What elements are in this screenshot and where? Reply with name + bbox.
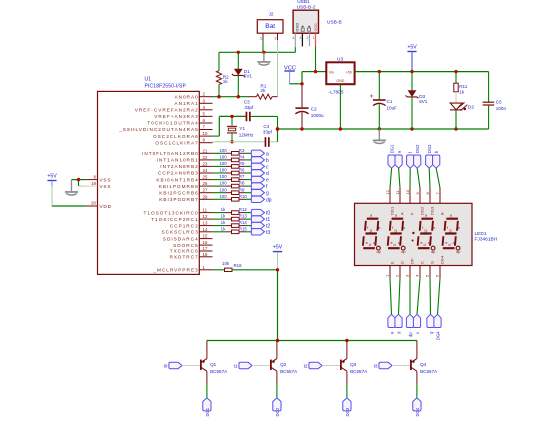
svg-text:+5V: +5V <box>407 45 417 51</box>
svg-text:33pf: 33pf <box>244 105 254 110</box>
svg-text:GND: GND <box>336 79 344 83</box>
node VCC junctions <box>314 70 317 73</box>
svg-text:1k: 1k <box>221 220 226 225</box>
svg-text:13: 13 <box>203 221 208 226</box>
svg-text:5V1: 5V1 <box>419 99 428 104</box>
svg-text:19: 19 <box>91 181 96 186</box>
wire OSC2 pin10 up and over <box>213 116 246 136</box>
wire display pin 1 to e <box>390 278 392 314</box>
node t3 net flag at Q4 base <box>374 362 392 368</box>
node top rail junctions <box>378 70 381 73</box>
U1 left-side pins VSS VSS VDD <box>86 174 112 209</box>
ground below VSS <box>71 180 73 192</box>
wire +5V to VDD pin 20 <box>52 187 86 206</box>
svg-text:R10: R10 <box>239 194 248 199</box>
svg-text:BC557A: BC557A <box>420 369 438 374</box>
svg-text:d: d <box>266 171 269 177</box>
resistor R15 1k on RC3 net t3 <box>213 226 252 233</box>
svg-text:DG2: DG2 <box>419 206 424 215</box>
svg-text:a: a <box>266 151 269 157</box>
svg-text:2k: 2k <box>260 88 266 93</box>
svg-text:2: 2 <box>275 36 277 40</box>
svg-text:Bat: Bat <box>265 23 275 30</box>
wire Q3 collector down <box>346 384 348 398</box>
svg-text:KBI1PGMRB5: KBI1PGMRB5 <box>159 184 199 189</box>
ground below C1 <box>378 129 380 140</box>
connector USB1 USB-B-2 <box>293 0 342 33</box>
svg-text:28: 28 <box>203 194 208 199</box>
node bottom rail junctions <box>300 127 303 130</box>
wire USB GND to battery rail <box>294 47 296 52</box>
svg-text:3: 3 <box>299 36 301 40</box>
svg-text:DP: DP <box>409 258 414 264</box>
svg-text:DG1: DG1 <box>389 206 394 215</box>
wire t2 flag to Q3 base <box>322 365 340 367</box>
node t1 digit-drive net flag <box>251 216 270 223</box>
svg-text:2: 2 <box>306 36 308 40</box>
svg-text:C1: C1 <box>387 99 393 104</box>
svg-text:Q3: Q3 <box>350 362 357 367</box>
svg-text:BC557A: BC557A <box>350 369 368 374</box>
power +5V left supply symbol <box>47 174 57 187</box>
svg-text:LED1: LED1 <box>475 231 487 237</box>
svg-text:R15: R15 <box>239 226 248 231</box>
svg-text:100: 100 <box>219 155 227 160</box>
wire f to display pin 10 <box>409 168 411 188</box>
svg-text:11: 11 <box>203 208 208 213</box>
svg-text:12MHz: 12MHz <box>239 133 254 138</box>
svg-text:1k: 1k <box>221 226 226 231</box>
wire U3 output +5V rail <box>355 71 489 73</box>
svg-text:27: 27 <box>203 188 208 193</box>
svg-text:GND: GND <box>294 23 299 32</box>
capacitor C4 33pf <box>263 124 278 147</box>
svg-text:KBI3PGDRB7: KBI3PGDRB7 <box>159 197 198 202</box>
wire DG2 to display pin 9 <box>417 168 420 188</box>
node DG2 net flag above display <box>414 144 421 168</box>
svg-text:TXCKRC6: TXCKRC6 <box>170 249 199 254</box>
power +5V top rail symbol <box>407 45 417 72</box>
svg-text:18: 18 <box>203 252 208 257</box>
svg-text:OSC1CLKIRA7: OSC1CLKIRA7 <box>155 140 198 145</box>
svg-text:t3: t3 <box>374 363 378 368</box>
node DG3 net flag above display <box>426 144 433 168</box>
svg-text:5V1: 5V1 <box>244 74 253 79</box>
svg-text:D: D <box>399 261 404 264</box>
wire display pin 3 to dp <box>409 278 411 314</box>
svg-text:DG3: DG3 <box>429 206 434 215</box>
svg-text:t1: t1 <box>234 363 238 368</box>
svg-text:Q2: Q2 <box>280 362 287 367</box>
svg-text:25: 25 <box>203 175 208 180</box>
svg-text:1k: 1k <box>221 214 226 219</box>
wire Q2 collector down <box>276 384 278 398</box>
wire display pin 2 to d <box>399 278 401 314</box>
USB pin 3 D+ <box>299 33 302 46</box>
svg-text:15: 15 <box>203 234 208 239</box>
wire crystal caps to ground rail <box>277 116 279 141</box>
svg-text:+5V: +5V <box>47 174 57 180</box>
resistor R13 1k on RC1 net t1 <box>213 214 252 221</box>
svg-text:Vin: Vin <box>329 70 334 74</box>
wire battery plus to R1 <box>277 40 279 96</box>
svg-text:C5: C5 <box>496 99 502 104</box>
node t1 net flag at Q2 base <box>234 362 252 368</box>
resistor R10 100 ohm on RB7 net dp <box>213 194 252 201</box>
svg-text:14: 14 <box>203 227 208 232</box>
svg-text:Y1: Y1 <box>239 126 245 131</box>
svg-text:g: g <box>266 191 269 197</box>
svg-text:INT0FLT0AN12RB0: INT0FLT0AN12RB0 <box>142 151 199 156</box>
node b net flag above display <box>433 150 440 168</box>
svg-text:AN0RA0: AN0RA0 <box>174 94 198 99</box>
svg-text:22: 22 <box>203 155 208 160</box>
resistor R14 1k on RC2 net t2 <box>213 220 252 227</box>
svg-text:B: B <box>439 212 444 215</box>
svg-text:R5: R5 <box>239 161 245 166</box>
svg-text:DG2: DG2 <box>415 144 420 153</box>
svg-text:1k: 1k <box>221 207 226 212</box>
capacitor C2 1000u <box>295 84 324 129</box>
svg-text:12: 12 <box>203 214 208 219</box>
svg-text:t2: t2 <box>266 224 270 230</box>
svg-text:U1: U1 <box>145 77 152 83</box>
wire VCC net <box>290 72 327 84</box>
wire Q1 collector down <box>206 384 208 398</box>
node DG2 net flag at Q2 collector <box>273 398 281 417</box>
svg-text:c: c <box>415 332 420 334</box>
svg-text:10k: 10k <box>222 261 230 266</box>
node DG1 net flag at Q1 collector <box>203 398 211 417</box>
svg-text:23: 23 <box>203 161 208 166</box>
node d net flag below display <box>395 314 402 334</box>
wire display pin 5 to g <box>429 278 432 314</box>
wire display pin 4 to c <box>417 278 420 314</box>
transistor Q3 BC557A <box>340 341 368 385</box>
resistor R9 100 ohm on RB6 net g <box>213 187 252 194</box>
node g net flag below display <box>427 314 434 334</box>
svg-text:VREF-CVREFAN2RA2: VREF-CVREFAN2RA2 <box>135 108 199 113</box>
svg-text:+5V: +5V <box>273 245 283 251</box>
diode D2 LED <box>450 103 474 130</box>
battery connector J2 Bat <box>257 12 283 41</box>
power +5V above R16 <box>273 245 283 253</box>
wire Q4 collector down <box>416 384 418 398</box>
svg-text:100: 100 <box>219 187 227 192</box>
svg-text:SCKSCLRC3: SCKSCLRC3 <box>162 230 199 235</box>
svg-text:USB1: USB1 <box>297 0 310 5</box>
node a net flag above display <box>395 150 402 168</box>
node e net flag below display <box>388 314 395 334</box>
wire a to display pin 11 <box>399 168 400 188</box>
svg-text:BC557A: BC557A <box>210 369 228 374</box>
node crystal ground junction <box>276 127 279 130</box>
svg-text:16: 16 <box>203 240 208 245</box>
resistor R1 2k <box>249 84 278 100</box>
svg-text:INT1AN10RB1: INT1AN10RB1 <box>157 158 199 163</box>
svg-text:J2: J2 <box>269 12 274 17</box>
svg-text:DG1: DG1 <box>389 144 394 153</box>
node c segment net flag <box>251 163 269 170</box>
node a segment net flag <box>251 150 269 157</box>
svg-text:R13: R13 <box>239 214 248 219</box>
svg-text:VSS: VSS <box>100 177 112 182</box>
svg-text:DG2: DG2 <box>275 407 280 416</box>
wire GND bottom rail <box>278 128 489 130</box>
node t0 digit-drive net flag <box>251 209 270 216</box>
wire display pin 6 to DG4 <box>438 278 441 314</box>
transistor Q2 BC557A <box>270 341 298 385</box>
svg-text:USB-B-2: USB-B-2 <box>297 5 316 11</box>
node b segment net flag <box>251 157 269 164</box>
node t3 digit-drive net flag <box>251 229 270 236</box>
svg-text:FJ3461BH: FJ3461BH <box>475 236 498 242</box>
svg-text:T1OSOT13CKIRC0: T1OSOT13CKIRC0 <box>144 210 199 215</box>
svg-text:12: 12 <box>385 189 390 194</box>
wire b to display pin 7 <box>436 168 440 188</box>
svg-text:_SSHLVDINC2OUTAN4RA5: _SSHLVDINC2OUTAN4RA5 <box>118 127 198 132</box>
transistor Q4 BC557A <box>410 341 438 385</box>
svg-text:T0CKIC1OUTRA4: T0CKIC1OUTRA4 <box>147 121 198 126</box>
svg-text:t0: t0 <box>164 363 168 368</box>
svg-text:R14: R14 <box>239 220 248 225</box>
resistor R11 1k <box>454 72 468 103</box>
svg-text:VCC: VCC <box>313 23 318 32</box>
svg-text:26: 26 <box>203 181 208 186</box>
svg-text:A: A <box>399 212 404 215</box>
wire DG3 to display pin 8 <box>428 168 431 188</box>
node DG4 net flag below display <box>434 314 441 340</box>
USB pin 1 VCC <box>313 33 316 46</box>
USB pin 2 D- <box>306 33 309 46</box>
node Y1 junctions <box>230 115 233 118</box>
svg-text:T1OSICCP2RC1: T1OSICCP2RC1 <box>151 217 198 222</box>
svg-text:CCP2AN9RB3: CCP2AN9RB3 <box>158 171 199 176</box>
svg-text:100: 100 <box>219 161 227 166</box>
svg-text:100: 100 <box>219 148 227 153</box>
svg-text:dp: dp <box>266 197 272 203</box>
svg-text:RXDTRC7: RXDTRC7 <box>170 255 199 260</box>
display colon dots <box>412 232 414 234</box>
wire OSC1 pin9 row <box>213 141 265 143</box>
wire +5V column to transistor emitter rail <box>277 252 279 340</box>
wire battery minus rail <box>219 40 295 52</box>
svg-text:1: 1 <box>260 36 262 40</box>
resistor R16 10k MCLR pullup <box>213 261 278 272</box>
node DG1 net flag above display <box>388 144 395 168</box>
display top pins 12 11 10 9 8 7 <box>385 188 445 215</box>
svg-text:1k: 1k <box>223 79 229 84</box>
power VCC port <box>284 65 296 84</box>
node d segment net flag <box>251 170 269 177</box>
svg-text:4: 4 <box>292 36 294 40</box>
svg-text:dp: dp <box>408 332 413 337</box>
svg-text:C3: C3 <box>244 99 250 104</box>
svg-text:SDISDARC4: SDISDARC4 <box>163 236 199 241</box>
svg-text:R9: R9 <box>239 187 245 192</box>
wire USB VCC down to VCC rail <box>315 47 317 72</box>
svg-text:R3: R3 <box>239 148 245 153</box>
svg-text:R4: R4 <box>239 155 245 160</box>
svg-text:U3: U3 <box>337 56 343 62</box>
resistor R12 1k on RC0 net t0 <box>213 207 252 214</box>
resistor R8 100 ohm on RB5 net f <box>213 181 252 188</box>
resistor R4 100 ohm on RB1 net b <box>213 155 252 162</box>
svg-text:10: 10 <box>405 189 410 194</box>
svg-text:G: G <box>429 261 434 264</box>
svg-text:KBI0ANT1RB4: KBI0ANT1RB4 <box>156 177 198 182</box>
svg-text:AN1RA1: AN1RA1 <box>174 101 198 106</box>
svg-text:R12: R12 <box>239 207 248 212</box>
display bottom pins 1 2 3 4 5 6 <box>384 255 444 278</box>
svg-text:100: 100 <box>219 194 227 199</box>
svg-text:VSS: VSS <box>100 184 112 189</box>
node f net flag above display <box>407 151 414 168</box>
wire t1 flag to Q2 base <box>252 365 270 367</box>
svg-text:1k: 1k <box>459 89 465 94</box>
svg-text:USB-B: USB-B <box>327 19 342 25</box>
svg-text:100: 100 <box>219 168 227 173</box>
node VSS junction <box>77 178 80 181</box>
node f segment net flag <box>251 183 268 190</box>
svg-text:b: b <box>266 158 269 164</box>
op-amp U3 L7805 voltage regulator <box>326 56 354 95</box>
node DG4 net flag at Q4 collector <box>413 398 421 417</box>
node t2 net flag at Q3 base <box>304 362 322 368</box>
U1 right-side pins with numbers and names <box>118 92 212 273</box>
diode D3 zener 5V1 <box>406 72 428 129</box>
USB pin 4 GND <box>292 33 295 47</box>
svg-text:SDORC5: SDORC5 <box>173 243 199 248</box>
svg-text:1: 1 <box>313 36 315 40</box>
svg-text:D2: D2 <box>468 104 474 109</box>
resistor R6 100 ohm on RB3 net d <box>213 168 252 175</box>
wire t3 flag to Q4 base <box>392 365 410 367</box>
svg-text:DG3: DG3 <box>345 407 350 416</box>
op-amp U1 PIC18F2550-I/SP microcontroller body <box>98 77 200 275</box>
wire VSS pins to ground <box>72 180 86 187</box>
svg-text:VDD: VDD <box>100 204 112 209</box>
svg-text:e: e <box>266 178 269 184</box>
wire DG1 to display pin 12 <box>390 168 392 188</box>
wire transistor emitter +5V rail <box>207 340 417 342</box>
svg-text:t1: t1 <box>266 217 270 223</box>
wire U3 GND to bottom rail <box>339 84 341 129</box>
svg-text:10: 10 <box>203 131 208 136</box>
transistor Q1 BC557A <box>200 341 228 385</box>
svg-text:BC557A: BC557A <box>280 369 298 374</box>
svg-text:C2: C2 <box>311 107 317 112</box>
node t0 net flag at Q1 base <box>164 362 182 368</box>
svg-text:17: 17 <box>203 246 208 251</box>
node g segment net flag <box>251 190 269 197</box>
svg-text:+5V: +5V <box>346 70 353 74</box>
svg-text:R7: R7 <box>239 174 245 179</box>
resistor R2 1k <box>216 52 229 96</box>
svg-text:KBI2PGCRB6: KBI2PGCRB6 <box>159 190 198 195</box>
svg-text:t3: t3 <box>266 230 270 236</box>
svg-text:DG3: DG3 <box>427 144 432 153</box>
svg-text:DG1: DG1 <box>205 407 210 416</box>
node emitter rail junctions <box>276 339 279 342</box>
svg-text:10uF: 10uF <box>387 106 398 111</box>
svg-text:21: 21 <box>203 148 208 153</box>
op-amp LED1 FJ3461BH 4-digit 7-segment display body <box>355 203 498 265</box>
svg-text:C4: C4 <box>263 124 269 129</box>
svg-text:R16: R16 <box>234 263 243 268</box>
svg-text:CCP1RC2: CCP1RC2 <box>170 223 199 228</box>
resistor R5 100 ohm on RB2 net c <box>213 161 252 168</box>
node DG3 net flag at Q3 collector <box>343 398 351 417</box>
svg-text:DG4: DG4 <box>435 331 440 340</box>
capacitor C3 33pf <box>244 99 278 121</box>
crystal Y1 12MHz <box>227 116 254 141</box>
svg-text:DG4: DG4 <box>439 255 444 264</box>
svg-text:24: 24 <box>203 168 208 173</box>
svg-text:100: 100 <box>219 181 227 186</box>
node dp segment net flag <box>251 196 271 203</box>
resistor R7 100 ohm on RB4 net e <box>213 174 252 181</box>
svg-text:1000u: 1000u <box>311 113 324 118</box>
ground below battery rail <box>263 52 265 61</box>
svg-text:VREF+AN3RA3: VREF+AN3RA3 <box>154 114 198 119</box>
svg-text:Q1: Q1 <box>210 362 217 367</box>
wire t0 flag to Q1 base <box>182 365 200 367</box>
svg-text:100: 100 <box>219 174 227 179</box>
svg-text:Q4: Q4 <box>420 362 427 367</box>
svg-text:DG4: DG4 <box>415 407 420 416</box>
diode D1 zener 5V1 <box>232 52 253 96</box>
resistor R3 100 ohm on RB0 net a <box>213 148 252 155</box>
svg-text:C: C <box>419 261 424 264</box>
svg-text:t2: t2 <box>304 363 308 368</box>
node t2 digit-drive net flag <box>251 222 270 229</box>
svg-text:E: E <box>389 261 394 264</box>
capacitor C1 10uF <box>370 72 397 129</box>
wire RA0 pin2 net <box>213 96 249 98</box>
node dp net flag below display <box>406 314 413 337</box>
node R16 +5V junction <box>276 268 279 271</box>
svg-text:R8: R8 <box>239 181 245 186</box>
svg-text:20: 20 <box>91 201 96 206</box>
svg-text:R6: R6 <box>239 168 245 173</box>
svg-text:33pf: 33pf <box>263 130 273 135</box>
node c net flag below display <box>413 314 420 334</box>
capacitor C5 100n <box>483 72 507 129</box>
node pin2 junctions <box>217 95 220 98</box>
svg-text:OSC2CLKORA6: OSC2CLKORA6 <box>153 134 199 139</box>
svg-text:PIC18F2550-I/SP: PIC18F2550-I/SP <box>145 84 187 90</box>
svg-text:INT2AN8RB2: INT2AN8RB2 <box>160 164 198 169</box>
svg-text:t0: t0 <box>266 211 270 217</box>
node e segment net flag <box>251 176 269 183</box>
svg-text:100n: 100n <box>496 106 507 111</box>
node battery rail junctions <box>237 51 240 54</box>
svg-text:-L7805: -L7805 <box>329 89 344 95</box>
svg-text:_MCLRVPPRE3: _MCLRVPPRE3 <box>152 268 198 273</box>
